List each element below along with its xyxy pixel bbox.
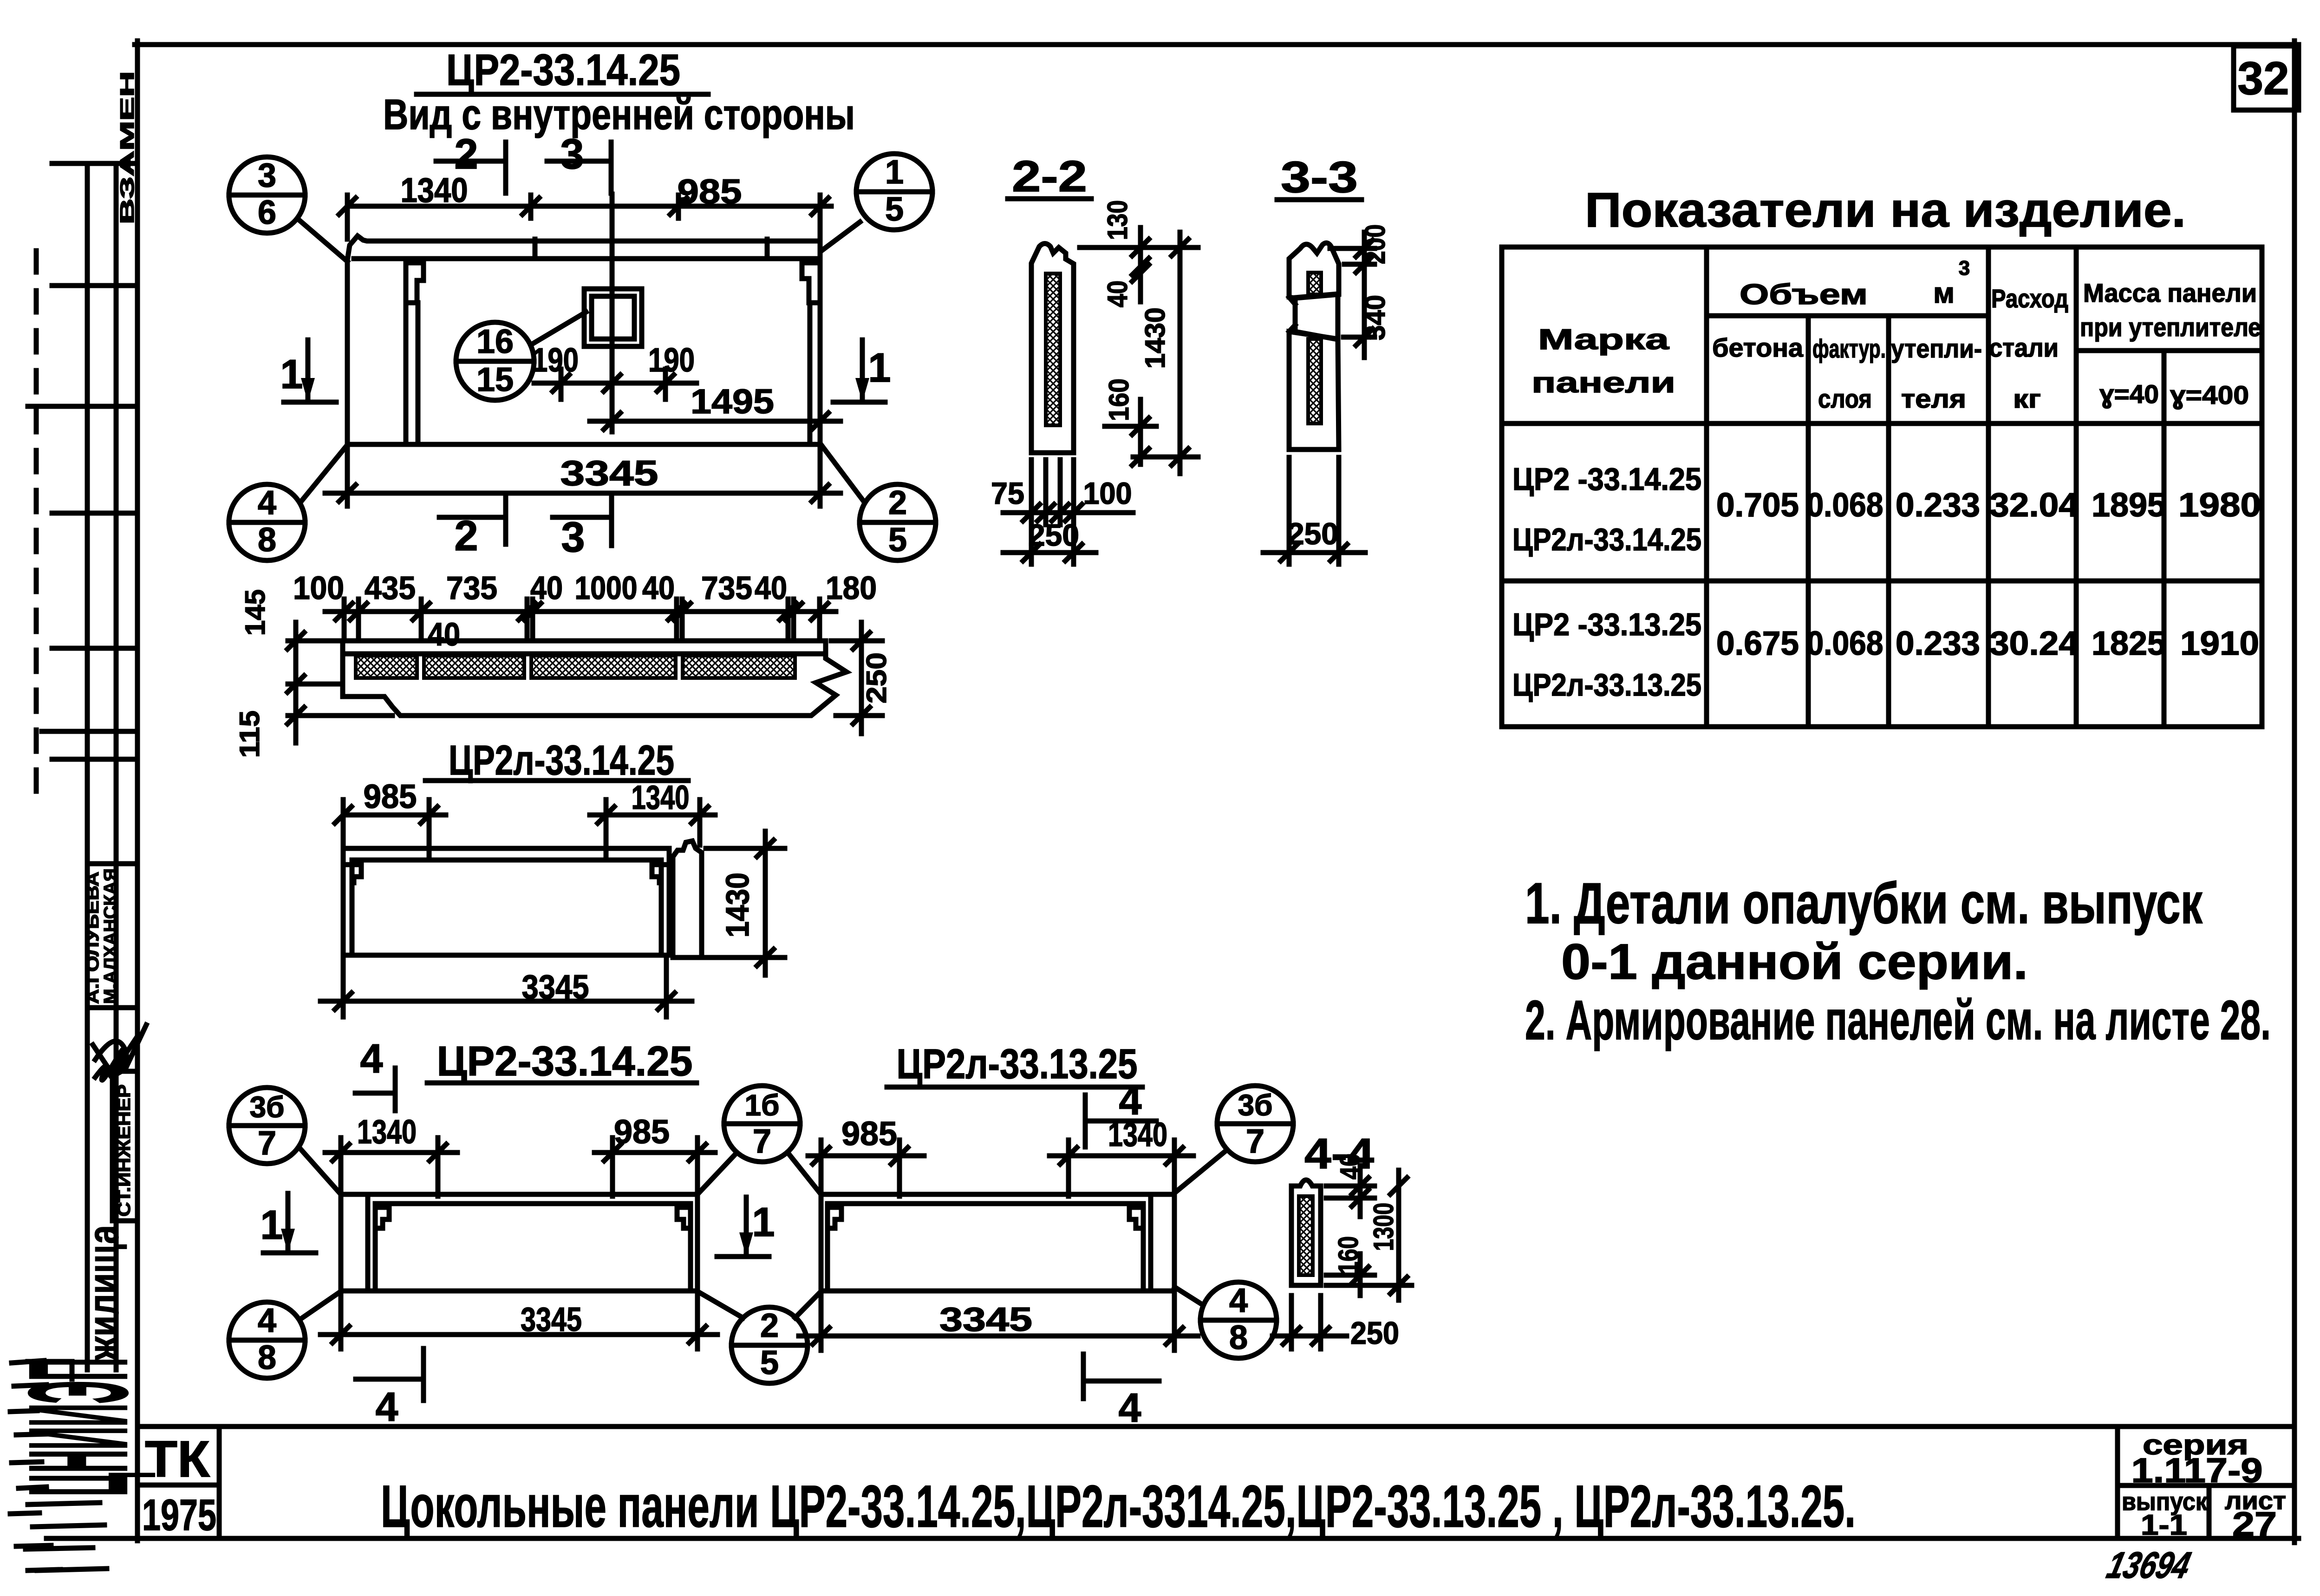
left hook notch [375, 1207, 389, 1228]
joint nib 2 [610, 1185, 615, 1196]
panel body [343, 848, 669, 955]
bottom dim 3345 [799, 1294, 1198, 1350]
height dim 1430 [706, 831, 785, 975]
svg-text:3б: 3б [249, 1090, 284, 1124]
detail circle 1/5 [821, 154, 932, 251]
svg-text:735: 735 [701, 570, 752, 606]
detail circle 3b/7 right [1176, 1086, 1293, 1192]
left height dims [288, 622, 392, 743]
frame top border [135, 42, 2299, 47]
svg-text:3345: 3345 [939, 1301, 1032, 1338]
svg-text:735: 735 [446, 570, 497, 606]
right rib step [802, 263, 820, 303]
svg-text:27: 27 [2232, 1505, 2277, 1544]
svg-text:200: 200 [1360, 224, 1391, 264]
insulation strip 2 [424, 656, 524, 678]
section flag 4 top [355, 1036, 395, 1111]
svg-text:3345: 3345 [560, 454, 658, 493]
section flag 3 top [547, 130, 611, 193]
right rib line [808, 303, 813, 443]
svg-text:40: 40 [642, 570, 675, 606]
frame bottom border [46, 1536, 2299, 1541]
right hook notch [652, 865, 668, 883]
frame right border [2292, 41, 2297, 1543]
svg-text:250: 250 [1287, 516, 1338, 551]
title underline [427, 1081, 697, 1086]
title underline [425, 778, 688, 783]
dim 1495 [590, 419, 841, 424]
svg-text:2. Армирование панелей см. на: 2. Армирование панелей см. на листе 28. [1525, 989, 2271, 1051]
right inner edge [688, 1204, 693, 1290]
svg-text:160: 160 [1333, 1236, 1364, 1274]
stamp noise under logo [26, 1361, 107, 1570]
svg-text:ЦР2л-33.13.25: ЦР2л-33.13.25 [897, 1041, 1138, 1088]
svg-text:1: 1 [280, 351, 303, 397]
centerline through opening [610, 194, 615, 432]
svg-text:8: 8 [1229, 1319, 1248, 1356]
svg-text:32.04: 32.04 [1989, 487, 2079, 524]
insulation upper [1308, 273, 1321, 294]
svg-text:ЦР2л-33.14.25: ЦР2л-33.14.25 [449, 737, 674, 784]
flange joint mark 2 [765, 239, 770, 259]
svg-text:145: 145 [240, 589, 271, 636]
dims right [1326, 1166, 1412, 1300]
top dim lines [808, 1140, 1193, 1191]
left hook notch [345, 865, 361, 883]
svg-text:16: 16 [476, 323, 514, 360]
svg-text:0.233: 0.233 [1896, 487, 1980, 524]
title block left edge [2115, 1427, 2120, 1538]
opening outer square [584, 289, 642, 346]
svg-text:Расход: Расход [1991, 284, 2068, 313]
section dim extension verticals [344, 599, 820, 638]
section flag 1 right [833, 340, 891, 402]
svg-text:0.705: 0.705 [1716, 487, 1799, 524]
joint nib 1 [427, 847, 432, 860]
svg-text:250: 250 [861, 652, 892, 704]
table outer border [1502, 247, 2262, 727]
section flag 1 left [280, 340, 336, 402]
svg-text:2: 2 [454, 130, 478, 178]
flange line [354, 256, 818, 261]
left notch lines [1289, 297, 1295, 332]
svg-text:ЦР2л-33.14.25: ЦР2л-33.14.25 [1512, 522, 1701, 557]
joint nib 1 [436, 1185, 441, 1196]
detail circle 3b/7 left [229, 1088, 341, 1194]
title block vertical [2207, 1485, 2212, 1538]
flange line [828, 1201, 1143, 1206]
svg-text:фактур.: фактур. [1812, 334, 1886, 363]
svg-text:1340: 1340 [632, 779, 690, 816]
svg-text:985: 985 [364, 778, 417, 815]
section flag 1 right [717, 1197, 775, 1257]
svg-text:1910: 1910 [2180, 625, 2259, 662]
svg-text:0.675: 0.675 [1716, 625, 1799, 662]
sheet number box [2234, 46, 2299, 110]
left hook notch [828, 1207, 841, 1228]
top dim lines [325, 1138, 715, 1191]
insulation strip 3 [531, 656, 676, 678]
table horizontals [1502, 316, 2262, 581]
left rib line 1 [404, 260, 409, 443]
section bar [1031, 244, 1074, 453]
TK box divider [137, 1483, 219, 1488]
section bar upper [1289, 243, 1339, 298]
svg-text:4: 4 [360, 1036, 383, 1081]
svg-text:115: 115 [234, 710, 265, 758]
svg-text:ЦР2 -33.14.25: ЦР2 -33.14.25 [1512, 462, 1701, 497]
right inner edge [659, 860, 664, 953]
svg-text:3: 3 [258, 157, 276, 194]
svg-text:15: 15 [476, 361, 514, 398]
svg-text:3345: 3345 [521, 1301, 582, 1338]
svg-text:1б: 1б [744, 1088, 779, 1122]
right end piece [673, 841, 702, 958]
svg-text:Марка: Марка [1538, 324, 1669, 356]
svg-text:СТ.ИНЖЕНЕР: СТ.ИНЖЕНЕР [115, 1084, 134, 1217]
svg-text:985: 985 [678, 172, 742, 211]
detail circle 2/5 [822, 446, 936, 560]
bottom dim 250 [1272, 1296, 1347, 1349]
bottom dim 3345 [325, 448, 841, 506]
svg-text:100: 100 [1083, 476, 1132, 510]
svg-text:1-1: 1-1 [2141, 1509, 2187, 1541]
dim 190/190 [534, 369, 697, 399]
svg-text:2-2: 2-2 [1012, 152, 1087, 201]
left rib line 2 [416, 303, 421, 443]
svg-text:8: 8 [258, 521, 276, 559]
right hook notch [677, 1207, 691, 1228]
section flag 2 top [436, 130, 506, 193]
svg-text:1430: 1430 [1140, 307, 1171, 369]
panel outline [347, 236, 820, 444]
svg-text:1825: 1825 [2092, 625, 2166, 662]
svg-text:2: 2 [760, 1307, 779, 1344]
flange line [375, 1201, 691, 1206]
svg-text:стали: стали [1989, 333, 2059, 362]
svg-text:ɣ=40: ɣ=40 [2099, 379, 2159, 409]
left piece divider [365, 1196, 371, 1290]
svg-text:40: 40 [530, 570, 563, 606]
svg-text:3: 3 [561, 514, 585, 561]
svg-text:утепли-: утепли- [1891, 334, 1982, 363]
svg-text:Показатели на изделие.: Показатели на изделие. [1585, 183, 2186, 237]
right hook notch [1129, 1207, 1143, 1228]
wedge joint [1295, 294, 1338, 339]
detail circle 4/8 [229, 445, 347, 560]
svg-text:Объем: Объем [1740, 279, 1868, 311]
opening inner square [592, 296, 634, 339]
section flag 4 bottom [1083, 1354, 1159, 1431]
svg-text:1.117-9: 1.117-9 [2131, 1451, 2263, 1490]
bottom extension lines [1003, 460, 1133, 564]
svg-text:1: 1 [261, 1202, 283, 1248]
right piece divider [1148, 1196, 1153, 1290]
right dim 250 [831, 622, 882, 734]
left rib step [406, 263, 424, 303]
svg-text:ЦР2-33.14.25: ЦР2-33.14.25 [446, 46, 680, 95]
svg-text:1340: 1340 [1108, 1116, 1167, 1153]
strip vertical line b [114, 163, 119, 1370]
TK box right edge [217, 1427, 222, 1538]
svg-text:ЦР2-33.14.25: ЦР2-33.14.25 [437, 1038, 693, 1085]
dashed margin line [34, 251, 39, 803]
svg-text:190: 190 [532, 342, 579, 379]
svg-text:5: 5 [885, 191, 904, 228]
svg-text:7: 7 [1246, 1123, 1264, 1160]
right dims [1080, 228, 1198, 474]
svg-text:кг: кг [2013, 384, 2041, 413]
svg-text:1495: 1495 [691, 382, 774, 421]
flange line [352, 858, 661, 863]
svg-text:А.ГОЛУБЕВА: А.ГОЛУБЕВА [83, 872, 103, 1004]
bottom dim 3345 [320, 959, 692, 1017]
title underline [887, 1085, 1142, 1090]
svg-text:ЦР2 -33.13.25: ЦР2 -33.13.25 [1512, 607, 1701, 642]
svg-text:жилища: жилища [80, 1225, 127, 1361]
svg-text:ВЗАМЕН: ВЗАМЕН [116, 71, 138, 224]
section body outline [343, 641, 847, 716]
panel body [341, 1194, 697, 1291]
svg-text:4: 4 [1119, 1385, 1141, 1431]
svg-text:13694: 13694 [2103, 1544, 2195, 1586]
svg-text:1975: 1975 [142, 1491, 216, 1540]
detail circle 4/8 right [1175, 1282, 1277, 1358]
insulation lower [1308, 339, 1321, 423]
svg-text:435: 435 [365, 570, 416, 606]
svg-text:3: 3 [1959, 257, 1970, 280]
engineer signature [93, 1036, 138, 1080]
svg-text:1300: 1300 [1368, 1203, 1399, 1251]
svg-text:190: 190 [648, 342, 695, 379]
section dim ticks [336, 603, 828, 620]
svg-text:4: 4 [376, 1384, 398, 1430]
detail circle 1b/7 center [697, 1086, 821, 1194]
left inner edge [350, 860, 355, 953]
svg-text:слоя: слоя [1818, 384, 1872, 413]
svg-text:40: 40 [755, 570, 787, 606]
svg-text:бетона: бетона [1712, 333, 1804, 362]
right dims [1330, 232, 1375, 358]
insulation [1046, 274, 1060, 425]
section inner top line [346, 651, 823, 657]
svg-text:5: 5 [760, 1344, 779, 1381]
insulation strip 4 [683, 656, 795, 678]
detail circle 16/15 [456, 312, 586, 400]
joint nib 2 [604, 847, 609, 860]
svg-text:100: 100 [293, 570, 344, 606]
svg-text:ЦР2л-33.13.25: ЦР2л-33.13.25 [1512, 667, 1701, 703]
svg-text:ɣ=400: ɣ=400 [2170, 380, 2249, 410]
section top dim line [325, 609, 836, 614]
stamp noise [10, 1361, 60, 1570]
svg-text:7: 7 [753, 1123, 771, 1160]
svg-text:1: 1 [885, 154, 904, 191]
section flag 2 bottom [439, 493, 506, 560]
svg-text:Вид с внутренней стороны: Вид с внутренней стороны [383, 91, 855, 138]
svg-text:1980: 1980 [2178, 487, 2261, 524]
svg-text:ЦНИИЭП: ЦНИИЭП [0, 1358, 156, 1496]
detail circle 3/6 [229, 157, 347, 261]
svg-text:40: 40 [1102, 280, 1133, 307]
insulation [1299, 1196, 1313, 1275]
svg-text:4: 4 [258, 484, 276, 521]
svg-text:7: 7 [258, 1125, 276, 1162]
svg-text:1340: 1340 [357, 1114, 417, 1151]
title underline [417, 92, 708, 97]
svg-text:8: 8 [258, 1339, 276, 1376]
svg-text:2: 2 [454, 512, 478, 560]
title block divider [2118, 1483, 2294, 1488]
svg-text:Масса панели: Масса панели [2083, 278, 2257, 307]
svg-text:6: 6 [258, 194, 276, 231]
strip horizontal rules [28, 163, 137, 759]
svg-text:3: 3 [560, 130, 584, 178]
svg-text:М.АЛХАНСКАЯ: М.АЛХАНСКАЯ [101, 868, 120, 1004]
svg-text:м: м [1933, 277, 1955, 309]
signers box [87, 861, 137, 866]
detail circle 4/8 left [229, 1291, 341, 1378]
section bar [1291, 1180, 1321, 1285]
svg-text:ТК: ТК [145, 1431, 210, 1488]
bottom extension lines [1263, 457, 1365, 564]
strip top line [137, 1424, 2294, 1429]
right inner edge [1141, 1204, 1146, 1290]
svg-text:панели: панели [1531, 367, 1675, 399]
svg-text:40: 40 [428, 616, 460, 652]
svg-text:0.068: 0.068 [1807, 625, 1883, 662]
joint nib 2 [1066, 1185, 1071, 1196]
svg-text:1. Детали опалубки см. выпуск: 1. Детали опалубки см. выпуск [1525, 872, 2203, 936]
svg-text:5: 5 [888, 521, 907, 559]
svg-text:1895: 1895 [2092, 487, 2166, 524]
svg-text:3б: 3б [1238, 1088, 1272, 1122]
svg-text:75: 75 [991, 476, 1024, 510]
section flag 4 top [1085, 1077, 1156, 1147]
svg-text:при утеплителе: при утеплителе [2080, 313, 2261, 342]
svg-text:0-1 данной серии.: 0-1 данной серии. [1561, 933, 2028, 990]
table verticals [1707, 247, 2164, 727]
frame left border [135, 41, 140, 1541]
svg-text:4: 4 [1229, 1282, 1248, 1319]
flange joint mark 1 [533, 239, 538, 259]
section flag 4 bottom [356, 1348, 424, 1430]
top dim line 1340/985 [347, 195, 831, 239]
strip vertical line a [85, 163, 90, 1370]
engineer box [110, 1071, 115, 1221]
left inner edge [373, 1204, 378, 1290]
joint nib 1 [897, 1185, 902, 1196]
svg-text:130: 130 [1102, 200, 1133, 240]
svg-text:160: 160 [1103, 378, 1134, 421]
svg-text:4: 4 [258, 1302, 276, 1339]
svg-text:2: 2 [888, 484, 907, 521]
section flag 1 left [261, 1193, 316, 1253]
svg-text:250: 250 [1028, 518, 1079, 552]
svg-text:180: 180 [826, 570, 877, 606]
svg-text:340: 340 [1360, 295, 1391, 340]
svg-text:1000: 1000 [575, 570, 638, 606]
signature squiggle [95, 1025, 146, 1076]
svg-text:теля: теля [1901, 384, 1966, 413]
svg-text:Цокольные панели ЦР2-33.14.25,: Цокольные панели ЦР2-33.14.25,ЦР2л-3314.… [381, 1473, 1856, 1540]
top dim lines [343, 800, 715, 845]
svg-text:250: 250 [1350, 1316, 1399, 1351]
svg-text:1430: 1430 [719, 873, 756, 938]
svg-text:1: 1 [868, 345, 891, 391]
svg-text:1: 1 [752, 1199, 775, 1245]
svg-text:30.24: 30.24 [1989, 625, 2079, 662]
detail circle 2/5 center [697, 1291, 821, 1383]
svg-text:0.233: 0.233 [1896, 625, 1980, 662]
svg-text:32: 32 [2237, 52, 2289, 104]
section bar lower [1289, 332, 1339, 449]
svg-text:3-3: 3-3 [1281, 153, 1358, 202]
panel body [821, 1194, 1174, 1291]
svg-text:0.068: 0.068 [1807, 487, 1883, 524]
insulation strip 1 [356, 656, 417, 678]
section flag 3 bottom [553, 493, 612, 561]
svg-text:3345: 3345 [522, 969, 589, 1006]
left inner edge [825, 1204, 830, 1290]
svg-text:985: 985 [841, 1115, 897, 1153]
bottom dim 3345 [320, 1294, 717, 1349]
